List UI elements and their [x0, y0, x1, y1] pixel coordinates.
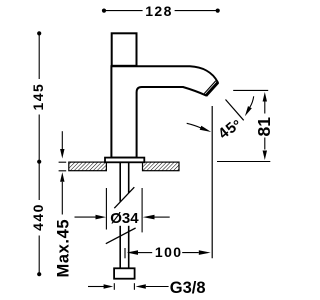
svg-text:440: 440 [30, 203, 46, 231]
svg-text:Ø34: Ø34 [110, 210, 139, 227]
svg-text:Max.45: Max.45 [55, 219, 73, 278]
svg-text:128: 128 [145, 3, 173, 19]
svg-text:100: 100 [155, 244, 183, 260]
svg-text:G3/8: G3/8 [170, 279, 206, 297]
svg-text:81: 81 [254, 117, 274, 137]
svg-text:145: 145 [30, 83, 46, 111]
